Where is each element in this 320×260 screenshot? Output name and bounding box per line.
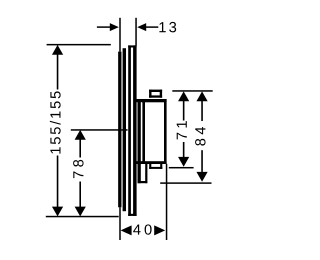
label 78 xyxy=(73,160,83,178)
dim 13 right arrowhead xyxy=(137,23,146,31)
sleeve bottom cap xyxy=(138,181,148,183)
label 155/155 xyxy=(50,91,61,153)
arrow 78 down xyxy=(75,207,86,217)
dim line 155 upper segment xyxy=(57,50,59,90)
dim line 71 lower segment xyxy=(183,142,185,161)
arrow 84 down xyxy=(196,172,207,182)
plate body left wall xyxy=(128,45,131,216)
handle body bottom edge xyxy=(142,161,167,164)
extension line right top xyxy=(172,90,212,92)
dim 13 right arrow tail xyxy=(146,26,159,28)
plate front edge line L1 xyxy=(118,52,121,208)
plate body top cap xyxy=(128,45,136,47)
label 84 xyxy=(195,127,205,146)
handle neck top xyxy=(136,99,142,102)
arrow 78 up xyxy=(75,130,86,140)
extension line 13 right xyxy=(135,18,137,46)
extension line 78 top xyxy=(71,129,128,131)
dim line 78 upper segment xyxy=(79,136,81,158)
dim 40 left arrowhead xyxy=(121,225,132,235)
arrow 71 up xyxy=(178,91,189,101)
top button right wall xyxy=(160,90,162,98)
dim line 155 lower segment xyxy=(57,156,59,212)
dim 40 right arrowhead xyxy=(154,225,165,235)
extension line 13 left xyxy=(119,18,121,52)
sleeve right wall xyxy=(145,164,147,183)
label 13 xyxy=(159,22,176,32)
handle neck bottom xyxy=(136,161,142,164)
extension line 40 right xyxy=(166,164,168,240)
dim 13 left arrowhead xyxy=(110,23,119,31)
dim line 71 upper segment xyxy=(183,97,185,121)
plate middle edge line L2 xyxy=(123,48,126,211)
label 71 xyxy=(177,121,187,139)
extension line 84 bottom xyxy=(160,182,211,184)
plate body right wall xyxy=(133,45,137,216)
extension line 155 top xyxy=(47,44,111,46)
handle body top edge xyxy=(142,99,167,102)
top button left wall xyxy=(149,90,151,98)
dim line 84 lower segment xyxy=(201,150,203,172)
top button top edge xyxy=(149,90,162,92)
dim 13 left arrow tail xyxy=(97,26,112,28)
handle body left wall xyxy=(142,99,145,164)
arrow 71 down xyxy=(178,157,189,167)
dim line 84 upper segment xyxy=(201,97,203,121)
sleeve left wall xyxy=(138,102,141,184)
bottom button left wall xyxy=(149,164,151,169)
bottom button right wall xyxy=(160,164,162,169)
plate body bottom cap xyxy=(128,214,136,216)
dim line 78 lower segment xyxy=(79,182,81,212)
arrow 155 up xyxy=(52,45,63,55)
extension line bottom left xyxy=(46,216,119,218)
bottom button bottom edge xyxy=(149,167,162,169)
extension line 40 left xyxy=(119,207,121,240)
extension line 71 bottom xyxy=(169,167,194,169)
arrow 84 up xyxy=(196,91,207,101)
arrow 155 down xyxy=(52,207,63,217)
label 40 xyxy=(133,224,151,234)
handle body right wall xyxy=(164,99,167,164)
top button bottom edge xyxy=(149,95,162,97)
